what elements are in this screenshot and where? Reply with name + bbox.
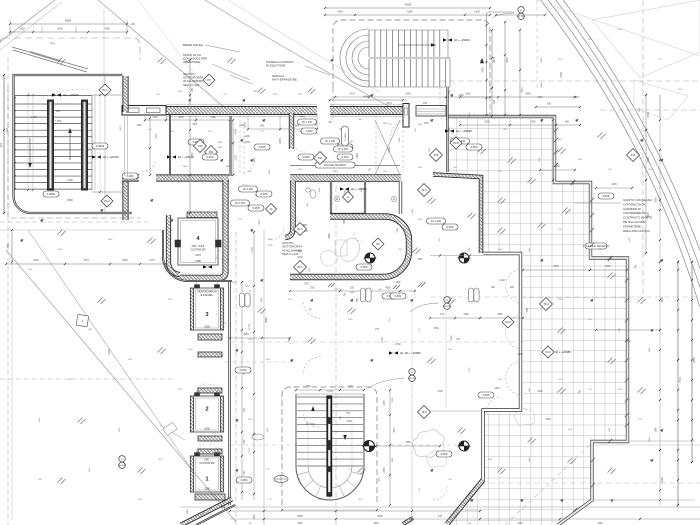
svg-text:1300: 1300 [19,28,25,31]
svg-text:1360: 1360 [333,171,339,173]
svg-text:(61.003): (61.003) [118,465,126,467]
svg-text:M 1 DN: M 1 DN [235,201,244,205]
svg-text:4.03: 4.03 [197,144,203,148]
svg-text:1060: 1060 [497,313,503,316]
svg-text:ANTI-EFRAZIONE: ANTI-EFRAZIONE [272,78,297,82]
svg-text:2405: 2405 [661,477,664,483]
svg-text:1200: 1200 [347,385,353,388]
svg-text:P12: P12 [434,153,439,157]
svg-text:1400: 1400 [210,116,216,119]
svg-text:7400: 7400 [423,123,429,125]
svg-text:1500: 1500 [204,326,210,329]
svg-text:600: 600 [547,103,552,106]
svg-text:2750: 2750 [305,385,311,388]
svg-text:4.30: 4.30 [440,314,445,316]
svg-text:7400: 7400 [104,28,110,31]
svg-text:1190: 1190 [244,439,246,445]
svg-text:1210: 1210 [361,187,363,193]
svg-text:79.4: 79.4 [421,188,427,192]
svg-text:300: 300 [56,109,61,113]
svg-text:F.065: F.065 [253,206,260,210]
svg-text:4500: 4500 [67,198,73,202]
svg-text:BRISE SOLEIL: BRISE SOLEIL [183,43,204,47]
svg-text:1200: 1200 [346,420,352,423]
svg-text:12095: 12095 [327,391,334,393]
svg-text:ASC. VUFF: ASC. VUFF [191,245,205,248]
svg-text:1. CEDILE TECNICO: 1. CEDILE TECNICO [583,244,610,248]
svg-text:1575: 1575 [245,122,247,128]
svg-text:2675: 2675 [279,138,282,144]
svg-text:1000: 1000 [553,265,559,268]
svg-text:F.060: F.060 [241,478,248,482]
svg-text:1310: 1310 [183,166,189,168]
svg-text:2110: 2110 [259,219,261,225]
svg-text:F.065: F.065 [603,194,610,198]
svg-text:P1.1: P1.1 [297,227,303,231]
svg-text:1545: 1545 [253,514,256,520]
svg-text:2100: 2100 [218,147,224,149]
svg-text:2100: 2100 [297,256,303,259]
svg-text:900: 900 [491,286,496,289]
svg-text:2675: 2675 [192,124,198,126]
svg-text:3875: 3875 [506,57,509,63]
svg-text:5811: 5811 [397,227,399,232]
svg-text:780: 780 [343,219,346,224]
svg-text:3300: 3300 [33,259,39,262]
svg-text:7710: 7710 [679,377,682,383]
svg-text:1375: 1375 [83,259,89,262]
svg-text:P12: P12 [318,156,323,160]
svg-text:F 4 DN: F 4 DN [345,133,347,140]
svg-text:1360: 1360 [226,166,232,168]
svg-text:2370: 2370 [386,102,392,105]
svg-text:2165: 2165 [384,400,386,406]
svg-text:W 1 DN: W 1 DN [302,120,312,124]
svg-text:1050: 1050 [537,96,543,99]
svg-text:3550: 3550 [8,243,10,249]
svg-text:1: 1 [205,476,208,482]
svg-text:1700: 1700 [303,284,309,286]
svg-text:1545: 1545 [656,427,658,433]
svg-text:200: 200 [5,127,9,132]
svg-text:1370: 1370 [195,254,201,257]
svg-text:1060: 1060 [484,121,490,124]
svg-text:1775: 1775 [149,259,155,262]
svg-text:7050: 7050 [482,67,485,73]
svg-text:1445: 1445 [337,11,343,14]
svg-text:PERMETERE: PERMETERE [623,224,641,228]
svg-text:P4.2: P4.2 [104,199,110,203]
svg-text:600: 600 [565,121,570,124]
svg-text:F9.2: F9.2 [545,350,551,354]
svg-text:1650: 1650 [494,388,500,390]
svg-text:7371: 7371 [521,87,524,93]
svg-text:230: 230 [423,102,428,105]
svg-text:2400: 2400 [647,112,650,118]
svg-text:2400: 2400 [235,129,238,135]
svg-text:1650: 1650 [405,441,411,444]
svg-text:3820: 3820 [261,297,263,303]
svg-text:IN EQUITONE: IN EQUITONE [266,64,285,68]
svg-text:2100: 2100 [268,245,274,247]
svg-text:F.065: F.065 [447,225,454,229]
svg-text:17790: 17790 [249,323,251,330]
svg-text:2700: 2700 [437,390,443,393]
svg-text:2400: 2400 [399,137,401,143]
svg-text:2360: 2360 [356,153,359,159]
svg-text:CUSTOM MP: CUSTOM MP [190,249,206,252]
svg-text:2770: 2770 [349,93,355,96]
svg-text:2110: 2110 [245,286,250,288]
svg-text:F.060: F.060 [441,452,448,456]
svg-text:LOCALE TECNICO: LOCALE TECNICO [324,163,347,167]
svg-text:5860: 5860 [300,116,306,118]
svg-text:METALLICA PER: METALLICA PER [623,220,645,224]
svg-text:1600: 1600 [605,265,611,268]
svg-text:PV: PV [207,78,211,82]
svg-text:900: 900 [510,286,515,289]
svg-text:2100: 2100 [244,141,250,144]
svg-text:S.1: S.1 [221,505,226,509]
svg-text:1050: 1050 [530,121,536,124]
svg-text:5450: 5450 [525,93,531,96]
svg-text:1340: 1340 [152,116,158,119]
svg-text:900: 900 [260,125,265,128]
svg-text:5295: 5295 [122,259,128,262]
svg-text:W 1 DN: W 1 DN [325,139,335,143]
svg-text:2400: 2400 [218,142,224,144]
svg-text:DEFLUSSO ACQUA: DEFLUSSO ACQUA [623,229,650,233]
svg-text:1500: 1500 [204,428,210,431]
svg-text:1500: 1500 [204,488,210,491]
svg-text:2860: 2860 [384,467,386,473]
svg-text:4565: 4565 [350,292,356,294]
svg-text:E DISABILI: E DISABILI [201,294,214,297]
svg-text:2400: 2400 [541,57,543,63]
svg-text:4065: 4065 [328,233,331,239]
svg-text:W 1 DN: W 1 DN [243,187,253,191]
svg-text:P1.2: P1.2 [297,265,303,269]
svg-text:AREAZIONE: AREAZIONE [183,60,200,64]
svg-text:COSTRUITO IN RETE: COSTRUITO IN RETE [623,216,652,220]
svg-text:F.060: F.060 [261,192,268,196]
svg-text:1575: 1575 [120,125,122,131]
svg-text:6105: 6105 [405,3,412,7]
svg-text:79.4: 79.4 [543,302,549,306]
svg-text:4550: 4550 [297,515,303,518]
svg-text:F.280a: F.280a [47,192,56,196]
svg-text:6960: 6960 [451,335,453,341]
svg-text:1210: 1210 [298,169,304,171]
svg-text:A: A [347,195,349,199]
svg-text:P9.8: P9.8 [453,141,459,145]
svg-text:F.064: F.064 [483,393,490,397]
svg-text:1310: 1310 [254,157,256,163]
svg-text:2900: 2900 [541,82,543,88]
svg-text:1300: 1300 [458,95,464,97]
svg-text:2700: 2700 [395,343,401,346]
svg-text:W 4 DN: W 4 DN [338,147,348,151]
svg-text:1545: 1545 [187,509,189,515]
svg-text:2400: 2400 [647,157,650,163]
svg-text:1.100: 1.100 [252,246,254,252]
svg-text:F.064: F.064 [395,294,402,298]
svg-text:1300: 1300 [31,115,37,119]
svg-text:4630: 4630 [385,288,391,290]
svg-text:1370: 1370 [383,123,389,125]
svg-text:2400: 2400 [560,72,563,78]
svg-text:F.060: F.060 [207,155,214,159]
svg-text:7.300: 7.300 [55,119,62,123]
svg-text:F.065: F.065 [361,265,368,269]
svg-text:1400: 1400 [67,178,73,182]
svg-text:2110: 2110 [232,282,237,284]
svg-text:Ipf + +25200: Ipf + +25200 [454,38,470,42]
svg-text:(61.003): (61.003) [443,306,451,308]
svg-text:F.060: F.060 [471,145,478,149]
svg-text:1310: 1310 [319,187,321,193]
svg-text:79.4: 79.4 [421,410,427,414]
svg-text:GIUNTO CON GHIAIA: GIUNTO CON GHIAIA [623,198,652,202]
svg-text:1360: 1360 [192,87,194,93]
svg-text:F.065: F.065 [259,145,266,149]
svg-text:2: 2 [205,407,208,413]
svg-text:Ipf + +29380: Ipf + +29380 [456,129,472,133]
svg-text:F12: F12 [631,153,636,157]
svg-text:6960: 6960 [265,317,268,323]
svg-text:F.060: F.060 [240,368,247,372]
svg-text:1.000: 1.000 [412,208,414,214]
svg-text:F.280a: F.280a [96,144,105,148]
svg-text:Ipf + +20015: Ipf + +20015 [103,155,119,159]
svg-text:3: 3 [205,312,208,318]
svg-text:F.280: F.280 [306,129,313,133]
svg-text:Ipf + +20015: Ipf + +20015 [63,93,79,97]
svg-text:4790: 4790 [433,327,439,330]
svg-text:SEZ cm 2x2: SEZ cm 2x2 [282,252,299,256]
svg-text:1650: 1650 [611,183,617,186]
svg-text:1360: 1360 [463,313,469,316]
svg-text:2185: 2185 [195,260,201,263]
svg-text:(61.520): (61.520) [517,16,525,18]
svg-text:5856: 5856 [156,133,158,139]
svg-text:1700: 1700 [309,288,315,290]
svg-text:2400: 2400 [244,135,250,138]
svg-text:F.065: F.065 [303,155,310,159]
svg-text:1630: 1630 [395,282,401,284]
svg-text:2465: 2465 [243,333,249,336]
svg-text:200: 200 [0,142,3,147]
svg-text:2860: 2860 [392,457,394,463]
svg-text:1450: 1450 [136,125,142,127]
svg-text:750: 750 [346,412,351,415]
svg-text:5100: 5100 [108,349,111,355]
svg-text:6440: 6440 [363,95,369,99]
svg-text:1400: 1400 [474,11,480,14]
svg-text:F.280: F.280 [342,155,349,159]
svg-text:270: 270 [438,515,443,518]
svg-text:1600: 1600 [537,390,543,393]
svg-text:1650: 1650 [417,259,423,261]
svg-text:M 1 DN: M 1 DN [431,219,440,223]
svg-text:1650: 1650 [545,418,551,421]
svg-text:4630: 4630 [377,515,383,518]
svg-text:SEZ cm 2x2: SEZ cm 2x2 [183,83,200,87]
svg-text:2100: 2100 [235,155,238,161]
svg-text:Ipf + +24080: Ipf + +24080 [555,350,571,354]
svg-text:1150: 1150 [244,470,246,476]
svg-text:4300: 4300 [394,427,396,433]
svg-text:2110: 2110 [240,125,246,127]
svg-text:1300: 1300 [178,116,184,119]
svg-text:1.100: 1.100 [499,279,506,282]
svg-text:Ipf + +20100: Ipf + +20100 [178,155,194,159]
svg-text:3625: 3625 [661,297,664,303]
svg-text:CONTENIMENTO: CONTENIMENTO [623,211,647,215]
svg-text:100: 100 [493,99,496,104]
svg-text:2960: 2960 [656,197,658,203]
svg-text:1800: 1800 [57,28,63,31]
svg-text:F01: F01 [209,150,214,154]
svg-text:F9.3: F9.3 [505,320,511,324]
svg-text:1650: 1650 [517,353,523,356]
svg-text:CONTENUTA DA: CONTENUTA DA [623,202,646,206]
svg-text:Ipf -20 + +24080: Ipf -20 + +24080 [400,351,421,355]
svg-text:(63.523): (63.523) [408,378,416,380]
svg-text:CUSTOM MP: CUSTOM MP [199,462,215,465]
svg-text:PV: PV [376,242,380,246]
svg-text:1300: 1300 [465,93,471,96]
svg-text:5000: 5000 [65,19,72,23]
svg-text:CASSERO DI: CASSERO DI [623,207,641,211]
svg-text:2165: 2165 [392,397,394,403]
svg-text:3875: 3875 [492,57,496,63]
svg-text:Ipf + +29380: Ipf + +29380 [351,187,367,191]
svg-text:P4.1: P4.1 [102,88,108,92]
svg-text:1060: 1060 [405,93,411,96]
svg-text:5260: 5260 [407,11,413,14]
svg-text:8710: 8710 [693,357,696,363]
